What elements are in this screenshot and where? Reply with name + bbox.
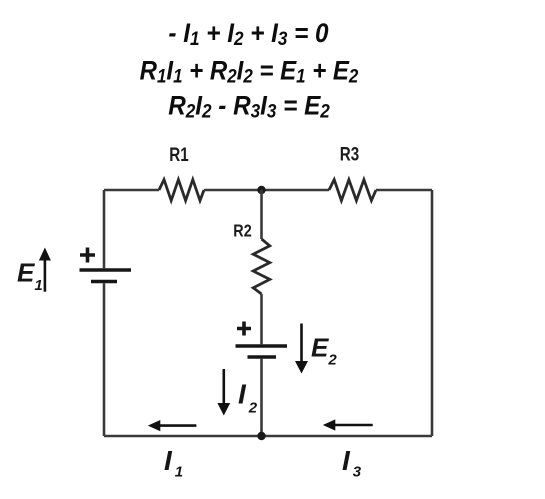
wire: middle branch upper (node B down to R2): [260, 190, 263, 239]
wire: left branch upper (corner down to E1 battery): [103, 190, 106, 268]
svg-text:E1: E1: [17, 258, 43, 295]
svg-text:I3: I3: [342, 445, 362, 481]
E2 label: [311, 333, 337, 369]
wire: top-left segment (left corner to R1): [104, 189, 159, 192]
junction node B (top middle): [257, 186, 265, 194]
battery E2 short plate: [248, 355, 277, 359]
svg-text:R1: R1: [169, 143, 189, 165]
junction node C (bottom middle): [257, 432, 265, 440]
I3 current arrow (left): [323, 419, 373, 430]
wire: left branch lower (E1 battery down to bottom-left corner): [103, 283, 106, 436]
battery E2 plus sign: [237, 322, 251, 336]
svg-text:- I1 + I2 + I3 = 0: - I1 + I2 + I3 = 0: [168, 19, 329, 49]
wire: top-middle segment (R1 to R3 through node B): [204, 189, 329, 192]
I1 label: [164, 445, 183, 481]
wire: right branch (top-right corner down to bottom-right corner): [431, 190, 434, 436]
svg-text:R2: R2: [233, 221, 251, 241]
battery E2 long plate: [236, 344, 288, 348]
R1 value label: [169, 143, 189, 165]
resistor R1: [159, 180, 204, 201]
battery E1 plus sign: [80, 248, 95, 263]
I1 current arrow (left): [148, 420, 197, 431]
svg-text:R2I2 - R3I3 = E2: R2I2 - R3I3 = E2: [168, 91, 330, 121]
svg-text:I1: I1: [164, 445, 183, 481]
E2 direction arrow (down): [295, 324, 308, 374]
E1 direction arrow (up): [39, 248, 51, 292]
battery E1 short plate: [91, 280, 117, 284]
wire: bottom (bottom-left corner to bottom-right corner through node C): [104, 435, 432, 438]
resistor R2: [253, 239, 270, 294]
equation line 3: R2I2 - R3I3 = E2: [168, 91, 330, 121]
I3 label: [342, 445, 362, 481]
I2 label: [238, 379, 258, 417]
R2 value label: [233, 221, 251, 241]
battery E1 long plate: [80, 268, 132, 272]
svg-text:I2: I2: [238, 379, 258, 417]
svg-text:R1I1 + R2I2 = E1 + E2: R1I1 + R2I2 = E1 + E2: [140, 56, 359, 86]
equation line 1: - I1 + I2 + I3 = 0: [168, 19, 329, 49]
wire: top-right segment (R3 to right corner): [376, 189, 432, 192]
svg-text:R3: R3: [340, 143, 359, 165]
svg-text:E2: E2: [311, 333, 337, 369]
resistor R3: [329, 180, 376, 201]
I2 current arrow (down): [217, 369, 230, 416]
wire: middle branch (R2 down to E2 battery): [260, 294, 263, 344]
R3 value label: [340, 143, 359, 165]
E1 label: [17, 258, 43, 295]
equation line 2: R1I1 + R2I2 = E1 + E2: [140, 56, 359, 86]
wire: middle branch lower (E2 battery down to node C): [260, 359, 263, 436]
